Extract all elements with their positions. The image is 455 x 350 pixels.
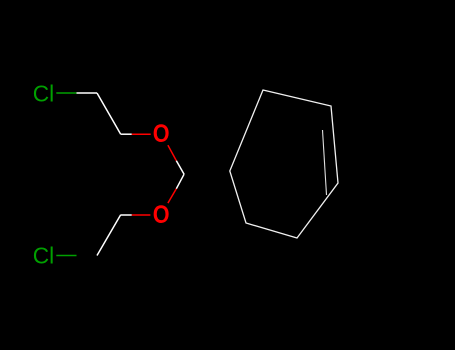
svg-text:Cl: Cl <box>33 80 54 106</box>
svg-text:Cl: Cl <box>33 242 54 268</box>
svg-text:O: O <box>153 121 170 148</box>
svg-text:O: O <box>153 202 170 229</box>
